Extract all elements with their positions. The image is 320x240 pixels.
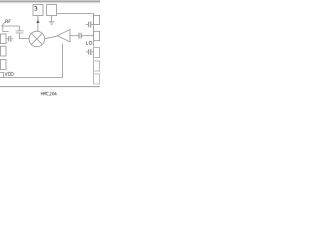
mixer U1 (circle with X): [29, 31, 45, 47]
pad R4 (right pin box): [94, 61, 100, 71]
pad RF input corner: [3, 26, 20, 32]
wire RF pad to DC block: [19, 26, 21, 31]
wire T2 to ground: [51, 16, 53, 22]
pad R1 (right pin box): [94, 15, 100, 24]
pad R5 (right pin box): [94, 74, 100, 84]
top gray band (edge of figure above): [0, 0, 100, 4]
pad B2 (left pin box): [0, 46, 6, 56]
capacitor C1 (RF DC block, horizontal plates): [16, 31, 24, 33]
node RF label: [6, 20, 11, 23]
wire B1 to capacitor: [6, 38, 8, 40]
wire LO line to pad R2: [82, 35, 94, 37]
wire amp output: [70, 35, 79, 37]
node IF arrow: [36, 19, 39, 23]
wire RF leader arrow: [1, 21, 6, 27]
node VDD label: [5, 72, 14, 76]
capacitor C4 (right blocking cap): [89, 21, 91, 27]
pad R2 (LO pin box): [94, 31, 100, 40]
wire C2 stub: [11, 38, 13, 40]
wire C4 stubs: [86, 24, 94, 26]
wire DC block down to mixer RF line: [20, 33, 30, 38]
part label HMC264: [41, 92, 57, 96]
wire chip bottom border: [0, 77, 62, 79]
pad B1 (left pin box): [0, 34, 6, 44]
wire C5 stubs: [86, 51, 94, 53]
op-amp A1 (LO amplifier, pointing left): [58, 29, 70, 42]
ground: [49, 21, 55, 24]
pin number 3: [34, 6, 37, 10]
pad T2 (top gnd box): [47, 5, 57, 16]
wire right border: [93, 13, 95, 45]
wire T1 to mixer: [37, 16, 39, 32]
wire amp ground drop: [61, 44, 63, 78]
capacitor C5 (right blocking cap): [89, 49, 91, 55]
pad R3 (right pin box): [94, 48, 100, 58]
pad B3 (left pin box): [0, 60, 6, 70]
pad T1 (top IF box): [33, 5, 43, 16]
wire figure bottom rule: [0, 86, 100, 88]
pad B4 (VDD corner box): [0, 73, 4, 78]
wire top border stub: [57, 12, 94, 14]
node LO label: [87, 41, 92, 44]
capacitor C3 (LO DC block): [79, 33, 81, 39]
capacitor C2 (left pin blocking cap): [9, 36, 11, 42]
wire mixer to amp: [45, 36, 58, 39]
